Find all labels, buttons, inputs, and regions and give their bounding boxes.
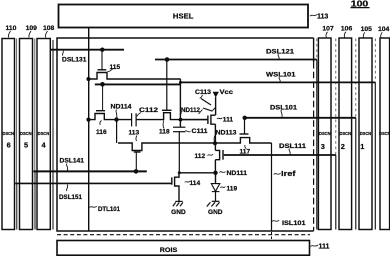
- svg-text:ND113: ND113: [216, 130, 237, 137]
- svg-text:104: 104: [378, 26, 390, 33]
- svg-text:109: 109: [26, 25, 38, 32]
- svg-text:DSCN: DSCN: [3, 131, 15, 136]
- svg-text:DSL151: DSL151: [59, 194, 82, 201]
- svg-text:114: 114: [190, 180, 201, 187]
- svg-text:110: 110: [6, 25, 17, 32]
- svg-text:1: 1: [360, 142, 364, 151]
- svg-text:DTL101: DTL101: [98, 206, 120, 213]
- svg-text:C111: C111: [192, 128, 208, 135]
- svg-text:WSL101: WSL101: [266, 72, 296, 79]
- svg-text:ND112: ND112: [181, 107, 200, 114]
- svg-text:3: 3: [321, 142, 325, 151]
- svg-text:ISL101: ISL101: [282, 220, 306, 227]
- svg-text:100: 100: [351, 0, 369, 8]
- svg-text:115: 115: [110, 64, 121, 71]
- svg-text:DSCN: DSCN: [360, 131, 372, 136]
- svg-text:111: 111: [319, 244, 330, 251]
- svg-text:113: 113: [129, 129, 140, 136]
- svg-text:108: 108: [43, 25, 55, 32]
- svg-text:DSL111: DSL111: [279, 143, 306, 150]
- svg-text:DSCN: DSCN: [319, 131, 331, 136]
- svg-text:118: 118: [159, 128, 170, 135]
- svg-text:DSL131: DSL131: [62, 56, 87, 63]
- svg-text:6: 6: [7, 141, 11, 150]
- svg-text:119: 119: [227, 186, 238, 193]
- svg-text:Vcc: Vcc: [220, 89, 234, 96]
- svg-text:105: 105: [361, 26, 373, 33]
- svg-text:DSCN: DSCN: [20, 131, 32, 136]
- svg-text:DSL101: DSL101: [270, 104, 297, 111]
- svg-text:116: 116: [96, 129, 107, 136]
- svg-text:106: 106: [341, 25, 353, 32]
- svg-text:ND111: ND111: [227, 170, 248, 177]
- svg-text:111: 111: [223, 116, 234, 123]
- svg-text:DSCN: DSCN: [379, 131, 390, 136]
- svg-text:107: 107: [322, 25, 334, 32]
- svg-text:C112: C112: [139, 107, 159, 114]
- svg-text:DSCN: DSCN: [340, 131, 352, 136]
- svg-text:HSEL: HSEL: [173, 11, 194, 20]
- svg-text:Iref: Iref: [281, 169, 296, 178]
- svg-text:112: 112: [195, 153, 206, 160]
- svg-text:113: 113: [317, 13, 328, 20]
- svg-text:2: 2: [341, 142, 345, 151]
- svg-text:DSL121: DSL121: [266, 48, 294, 55]
- svg-text:ROIS: ROIS: [160, 247, 178, 254]
- svg-text:GND: GND: [171, 209, 186, 216]
- svg-text:117: 117: [240, 148, 251, 155]
- svg-text:GND: GND: [208, 209, 223, 216]
- svg-text:DSL141: DSL141: [60, 157, 85, 164]
- svg-text:5: 5: [24, 141, 28, 150]
- svg-text:C113: C113: [195, 89, 211, 96]
- svg-text:DSCN: DSCN: [38, 131, 50, 136]
- svg-text:ND114: ND114: [111, 104, 132, 111]
